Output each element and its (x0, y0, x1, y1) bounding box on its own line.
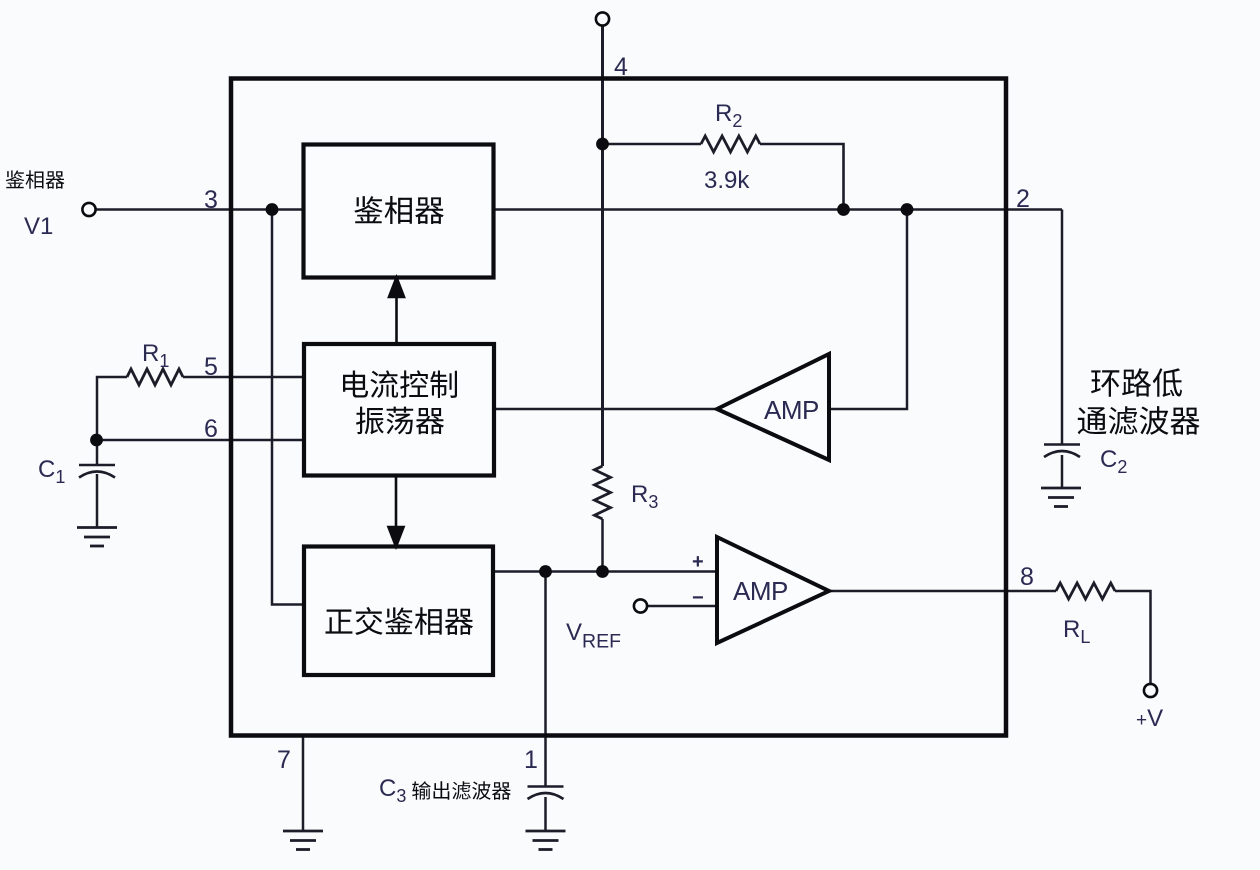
wire pin4 vertical from top terminal down to R3 (601, 26, 604, 466)
svg-text:+: + (692, 551, 704, 573)
svg-text:6: 6 (204, 415, 218, 443)
wire AMP2 output to pin 8 and RL (829, 590, 1056, 593)
text 环路低 (1091, 368, 1182, 397)
resistor R1 (127, 369, 183, 385)
node junction pin1 (539, 565, 552, 578)
svg-text:8: 8 (1020, 563, 1034, 591)
node junction pin3 (266, 203, 279, 216)
svg-text:3.9k: 3.9k (704, 167, 750, 194)
arrow oscillator to phase detector (389, 278, 404, 345)
svg-text:1: 1 (524, 746, 538, 774)
svg-text:AMP: AMP (733, 576, 788, 606)
wire C3 to ground (544, 797, 547, 831)
svg-text:AMP: AMP (764, 395, 819, 425)
text 通滤波器 (1078, 406, 1200, 435)
node junction pin4/R2 (596, 138, 609, 151)
block: current controlled oscillator 电流控制振荡器 (304, 344, 494, 476)
svg-text:−: − (692, 587, 704, 609)
wire phase detector output to pin 2 (494, 208, 1063, 211)
wire C1 to ground (96, 474, 99, 528)
wire R1 right lead to pin 5 (183, 376, 304, 379)
resistor R3 (595, 466, 611, 519)
wire R2 right lead and drop to node (760, 144, 844, 210)
wire pin 7 to ground (302, 736, 305, 832)
capacitor C1 (79, 465, 115, 478)
wire pin 1 down to C3 (544, 572, 547, 788)
IC package box (231, 79, 1006, 736)
terminal +V (1144, 684, 1157, 697)
capacitor C2 (1044, 445, 1080, 458)
node junction AMP1 input (901, 203, 914, 216)
text 正交鉴相器 (326, 607, 474, 635)
svg-text:V1: V1 (24, 213, 53, 240)
wire R1 left lead down to C1 node (97, 377, 127, 440)
wire C1 node down to capacitor (96, 440, 99, 465)
block: phase detector 鉴相器 (304, 145, 494, 278)
terminal pin 4 top (596, 12, 609, 25)
wire R3 bottom lead (601, 519, 604, 572)
block: quadrature phase detector 正交鉴相器 (304, 547, 493, 676)
ground below C2 (1041, 488, 1081, 507)
text 振荡器 line 2 (356, 407, 444, 435)
ground below C1 (77, 528, 117, 547)
svg-text:5: 5 (204, 353, 218, 381)
text 输出滤波器 (412, 781, 511, 800)
text 鉴相器 (phase detector) (354, 196, 444, 224)
wire RL right lead down to +V terminal (1115, 591, 1151, 684)
arrow oscillator to quadrature detector (389, 476, 404, 547)
wire pin2 drop to C2 (1061, 210, 1064, 445)
svg-text:2: 2 (1016, 185, 1030, 213)
ground below C3 (526, 831, 566, 850)
wire C2 to ground (1061, 455, 1064, 488)
node junction C1/R1/pin6 (90, 434, 103, 447)
wire quadrature detector output to AMP2 plus input (494, 570, 718, 573)
op-amp AMP2 (output amplifier, points right) (692, 537, 829, 643)
wire R2 left lead (603, 143, 702, 146)
op-amp AMP1 (loop amplifier, points left) (717, 354, 829, 460)
wire VREF to AMP2 minus input (648, 605, 718, 608)
node junction R2/pin2 line (837, 203, 850, 216)
wire node3 branch down to quadrature detector input (272, 210, 304, 605)
wire pin 6 to oscillator (97, 439, 304, 442)
node junction R3 (596, 565, 609, 578)
ground pin 7 (283, 831, 323, 850)
wire AMP1 input from node up to pin2 line (829, 210, 907, 410)
capacitor C3 (528, 787, 564, 800)
wire AMP1 output to oscillator (494, 408, 718, 411)
svg-text:+V: +V (1136, 705, 1163, 732)
svg-text:4: 4 (614, 53, 628, 81)
svg-text:3: 3 (204, 186, 218, 214)
text 电流控制 line 1 (343, 370, 457, 398)
terminal V1 input (82, 203, 95, 216)
resistor RL (1056, 583, 1115, 599)
wire V1 input to phase detector (pin 3) (96, 208, 304, 211)
svg-text:7: 7 (277, 746, 291, 774)
resistor R2 (701, 136, 760, 152)
text 鉴相器 small (6, 170, 65, 188)
terminal VREF (634, 599, 647, 612)
